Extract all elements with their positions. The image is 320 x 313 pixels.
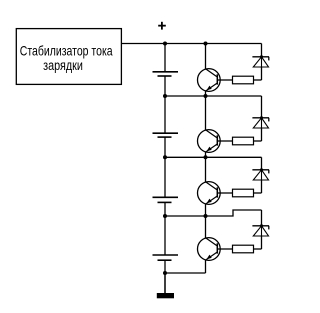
wire bottom tap to ground node [165, 272, 206, 274]
transistor VT1 [198, 69, 221, 92]
node junction at (205.5,157.3) [204, 155, 208, 159]
resistor R1 [233, 76, 254, 84]
transistor VT2 [198, 130, 221, 153]
battery cell GB1 [153, 72, 179, 76]
node junction at (165.0,157.3) [163, 155, 167, 159]
svg-text:зарядки: зарядки [43, 58, 83, 74]
battery cell GB2 [153, 133, 179, 137]
zener diode VD3 [252, 168, 269, 180]
transistor VT3 [198, 182, 221, 205]
wire resistor R2 to zener VD2 anode [254, 140, 262, 142]
wire zener VD2 cathode to cell top [261, 96, 263, 118]
wire collector VT1 [205, 44, 207, 70]
wire collector VT4 [205, 216, 207, 238]
wire battery column segment 4 [164, 202, 166, 255]
wire collector VT2 [205, 96, 207, 130]
wire zener VD1 cathode to cell top [261, 44, 263, 57]
wire resistor R4 to zener VD4 anode [254, 248, 262, 250]
node junction at (165.0,96.0) [163, 94, 167, 98]
wire battery column segment 5 [164, 260, 166, 293]
wire top rail from stabilizer to zener column [121, 43, 261, 45]
wire battery column segment 1 [164, 44, 166, 72]
wire zener VD4 cathode to cell top [261, 210, 263, 226]
charge current stabilizer box [16, 29, 121, 85]
resistor R2 [233, 137, 254, 145]
ground [157, 293, 174, 298]
wire emitter VT3 [205, 204, 207, 216]
wire zener VD3 cathode to cell top [261, 157, 263, 170]
wire base VT1 to resistor R1 [217, 79, 232, 81]
wire emitter VT2 [205, 152, 207, 158]
wire base VT4 to resistor R4 [217, 248, 232, 250]
wire collector VT3 [205, 157, 207, 182]
node junction at (165.0,273.0) [163, 271, 167, 275]
zener diode VD2 [252, 116, 269, 128]
node junction at (205.5,96.0) [204, 94, 208, 98]
wire base VT3 to resistor R3 [217, 192, 232, 194]
wire ground lead [164, 273, 166, 293]
wire emitter VT4 [205, 260, 207, 273]
node junction at (205.5,43.5) [204, 42, 208, 46]
zener diode VD4 [252, 224, 269, 236]
node junction at (165.0,216.0) [163, 214, 167, 218]
wire tap between cell3 and cell4 with jog [165, 210, 262, 216]
transistor VT4 [198, 238, 221, 261]
wire battery column segment 3 [164, 137, 166, 197]
zener diode VD1 [252, 55, 269, 67]
wire tap between cell2 and cell3 [165, 156, 262, 158]
wire emitter VT1 [205, 91, 207, 96]
wire battery column segment 2 [164, 76, 166, 133]
node junction at (205.5,216.0) [204, 214, 208, 218]
wire resistor R3 to zener VD3 anode [254, 192, 262, 194]
svg-text:Стабилизатор тока: Стабилизатор тока [20, 43, 113, 59]
battery cell GB3 [153, 197, 179, 202]
resistor R4 [233, 245, 254, 253]
resistor R3 [233, 189, 254, 197]
wire base VT2 to resistor R2 [217, 140, 232, 142]
plus terminal label [158, 22, 166, 30]
node junction at (165.0,43.5) [163, 42, 167, 46]
wire tap between cell1 and cell2 [165, 95, 262, 97]
wire resistor R1 to zener VD1 anode [254, 79, 262, 81]
battery cell GB4 [153, 255, 179, 260]
